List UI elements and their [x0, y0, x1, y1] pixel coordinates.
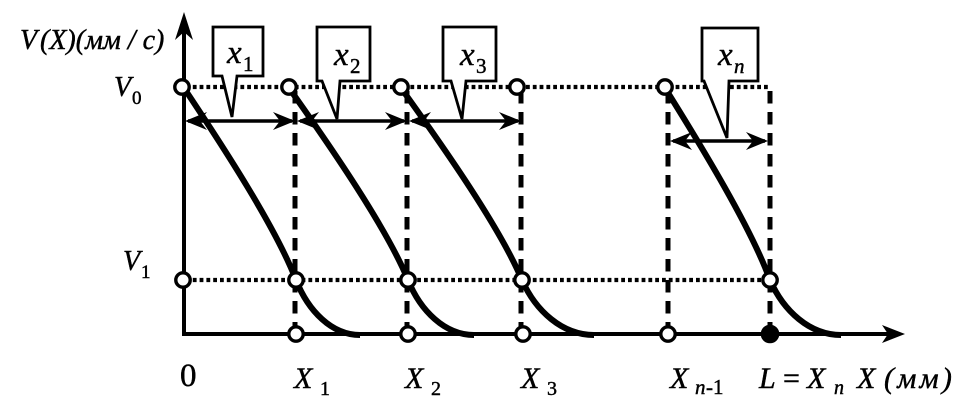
svg-text:X: X — [293, 362, 314, 395]
velocity curve 3 — [401, 88, 594, 335]
node circle V1 on axis — [176, 273, 190, 287]
node circle V1 at X3 — [515, 273, 529, 287]
svg-text:1: 1 — [320, 378, 330, 400]
svg-text:X: X — [404, 362, 425, 395]
dashed vertical at X3 — [519, 91, 524, 334]
svg-text:3: 3 — [476, 54, 487, 78]
callout box x1 — [213, 27, 263, 117]
svg-text:(X)(мм / с): (X)(мм / с) — [40, 25, 164, 56]
callout box xn — [702, 28, 758, 138]
svg-text:V: V — [20, 25, 40, 56]
velocity curve 4 — [665, 88, 841, 335]
node circle V0 at X2 curve start — [394, 80, 408, 94]
filled node circle axis at Xn — [762, 326, 777, 341]
svg-text:-1: -1 — [706, 375, 724, 399]
svg-text:X: X — [669, 362, 690, 395]
svg-text:n: n — [834, 377, 844, 399]
dashed vertical at Xn-1 — [666, 91, 671, 334]
node circle axis at X2 — [401, 327, 415, 341]
node circle axis at X3 — [516, 327, 530, 341]
svg-text:=: = — [783, 362, 800, 395]
node circle axis at Xn-1 — [661, 327, 675, 341]
svg-text:X: X — [520, 362, 541, 395]
node circle V1 at X1 — [289, 273, 303, 287]
double arrow x3 — [409, 112, 521, 130]
svg-text:2: 2 — [350, 54, 361, 78]
svg-text:x: x — [226, 35, 242, 71]
svg-text:1: 1 — [141, 262, 151, 283]
node circle V1 at Xn — [763, 273, 777, 287]
dashed vertical at Xn — [768, 91, 773, 334]
svg-text:0: 0 — [132, 88, 142, 109]
svg-text:L: L — [758, 362, 776, 395]
callout box x3 — [443, 27, 496, 119]
svg-text:x: x — [459, 37, 475, 73]
node circle V1 at X2 — [401, 273, 415, 287]
callout box x2 — [317, 27, 370, 119]
double arrow xn — [670, 132, 768, 150]
y axis — [182, 25, 186, 336]
node circle axis at X1 — [289, 327, 303, 341]
svg-text:2: 2 — [431, 378, 441, 400]
node circle V0 at Xn-1 curve start — [658, 80, 672, 94]
y axis arrowhead — [175, 12, 193, 40]
svg-text:3: 3 — [547, 378, 557, 400]
velocity curve 1 — [184, 88, 360, 335]
double arrow x1 — [185, 112, 295, 130]
node circle V0 at X1 curve start — [282, 80, 296, 94]
svg-text:0: 0 — [180, 358, 197, 394]
svg-text:x: x — [333, 37, 349, 73]
svg-text:n: n — [734, 54, 745, 78]
svg-text:V: V — [114, 72, 134, 103]
dashed vertical at X1 — [293, 91, 298, 334]
svg-text:x: x — [717, 37, 733, 73]
x axis — [183, 332, 892, 336]
svg-text:X: X — [806, 362, 827, 395]
x axis arrowhead — [882, 325, 905, 343]
svg-text:V: V — [123, 246, 143, 277]
svg-text:(мм): (мм) — [884, 362, 955, 395]
svg-text:n: n — [695, 375, 706, 399]
node circle V0 at X3 — [510, 80, 524, 94]
dotted level line V0 — [186, 85, 770, 89]
node circle V0 on axis — [175, 80, 189, 94]
svg-text:1: 1 — [243, 52, 254, 76]
dashed vertical at X2 — [405, 91, 410, 334]
svg-text:X: X — [856, 362, 877, 395]
double arrow x2 — [297, 112, 407, 130]
velocity curve 2 — [289, 88, 474, 335]
dotted level line V1 — [186, 278, 770, 282]
